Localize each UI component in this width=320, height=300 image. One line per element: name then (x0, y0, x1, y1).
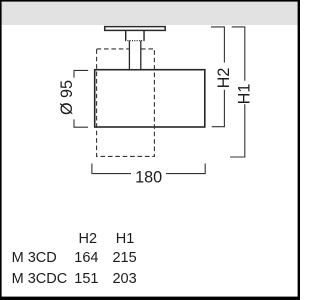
stem (white fill masks dashed line) (129, 41, 141, 70)
svg-text:M 3CDC: M 3CDC (12, 271, 68, 287)
cylinder body (front view, 180 wide) (95, 70, 205, 127)
svg-text:H2: H2 (79, 231, 98, 247)
dimension H1 (right outer) (230, 27, 254, 157)
table row M 3CD (12, 250, 137, 266)
svg-text:164: 164 (74, 250, 98, 266)
svg-text:Ø 95: Ø 95 (58, 80, 76, 115)
ceiling canopy plate (105, 27, 166, 31)
gray header bar (2, 2, 298, 25)
page border top (0, 0, 300, 2)
dashed outline (cylinder swivelled down, Ø95 wide) (97, 49, 155, 156)
page border right (298, 0, 300, 300)
svg-text:203: 203 (112, 271, 136, 287)
svg-text:180: 180 (135, 169, 162, 187)
svg-text:H1: H1 (236, 84, 254, 105)
dimension H2 (right inner) (211, 27, 233, 127)
dimension Ø95 (left) (58, 70, 88, 127)
svg-text:H1: H1 (116, 231, 135, 247)
svg-text:M 3CD: M 3CD (12, 250, 57, 266)
svg-text:151: 151 (74, 271, 98, 287)
table row M 3CDC (12, 271, 137, 287)
page border bottom (0, 297, 300, 300)
dimension 180 (bottom width) (92, 164, 205, 187)
svg-text:H2: H2 (215, 68, 233, 89)
svg-text:215: 215 (112, 250, 136, 266)
page border left (0, 0, 2, 300)
mounting block below plate (125, 31, 145, 41)
